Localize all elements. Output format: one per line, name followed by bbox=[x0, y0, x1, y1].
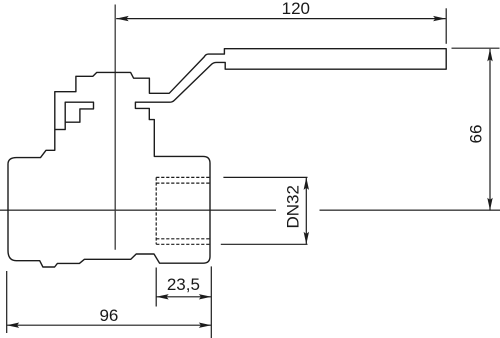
dimension 23,5: right extension line (shared with 96) bbox=[210, 266, 212, 338]
svg-text:23,5: 23,5 bbox=[167, 275, 200, 294]
thread hidden lines (dashed) bbox=[156, 177, 210, 244]
dimension 120: arrows bbox=[116, 16, 445, 21]
dimension 66: line bbox=[489, 49, 491, 210]
dimension 23,5: line bbox=[156, 296, 211, 298]
dimension 66: extension line bbox=[452, 47, 500, 49]
dimension 120: line bbox=[116, 18, 445, 20]
svg-text:120: 120 bbox=[282, 0, 310, 18]
dimension 66: arrows bbox=[487, 49, 492, 210]
horizontal centerline bbox=[0, 209, 500, 211]
dimension 120: right extension line bbox=[445, 8, 447, 44]
dimension DN32: line bbox=[305, 177, 307, 244]
dimension 96: arrows bbox=[7, 323, 212, 328]
valve body outline with handle lever and sleeve bbox=[8, 49, 446, 267]
svg-text:96: 96 bbox=[99, 306, 118, 325]
svg-text:DN32: DN32 bbox=[284, 185, 303, 228]
vertical stem centerline bbox=[114, 5, 116, 250]
dimension 23,5: arrows bbox=[156, 294, 211, 299]
dimension 96: line bbox=[7, 324, 212, 326]
dimension DN32: top extension line bbox=[223, 176, 307, 178]
body shelf line bbox=[55, 129, 65, 131]
dimension 96: left extension line bbox=[6, 271, 8, 333]
dimension DN32: arrows bbox=[304, 177, 309, 244]
dimension DN32: bottom extension line bbox=[221, 243, 308, 245]
svg-text:66: 66 bbox=[466, 125, 485, 144]
dimension 23,5: left extension line bbox=[155, 268, 157, 307]
packing nut bbox=[65, 102, 93, 129]
